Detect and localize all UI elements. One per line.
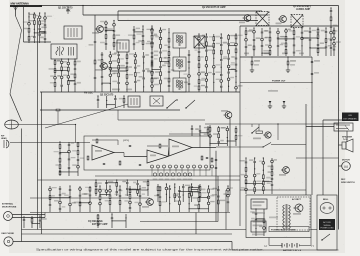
speaker jack box xyxy=(334,123,353,131)
IC1 amplifier outline box xyxy=(84,136,210,170)
coil L3 windings xyxy=(130,98,132,105)
label near Q2 smudge xyxy=(239,22,245,24)
jack external microphone xyxy=(4,212,13,221)
svg-text:BELL: BELL xyxy=(323,199,329,201)
wire pots drop x278 xyxy=(277,124,279,140)
svg-text:REC: REC xyxy=(341,179,346,181)
wire left bus x37.5 xyxy=(37,18,39,230)
IF transformer IFT1 coil box xyxy=(173,33,186,48)
label near Q7 smudge xyxy=(142,206,149,208)
label near Q6 smudge xyxy=(221,110,228,112)
label near Q5 smudge xyxy=(279,174,286,176)
wire mic lead a xyxy=(13,214,46,216)
transformer T1 ant coil box xyxy=(51,44,77,59)
junction powerout x312 xyxy=(311,82,312,83)
wire left bus x41.5 xyxy=(41,92,43,234)
wire osc row y120 xyxy=(118,119,205,121)
wire battery lead right xyxy=(310,238,312,246)
transistor Q6 ALC xyxy=(224,112,232,119)
wire speaker link y120 xyxy=(323,119,342,121)
wire drop x83 xyxy=(82,6,84,16)
coil L2 windings xyxy=(119,43,121,50)
svg-text:50/60Hz: 50/60Hz xyxy=(323,225,330,227)
wire battery lead left xyxy=(268,238,270,246)
wire speaker feed y144.5 xyxy=(271,144,306,146)
label near Q3 smudge xyxy=(95,69,102,71)
cluster mixer RC network xyxy=(98,51,159,92)
capacitor on x312 b xyxy=(311,73,314,75)
cluster Q1 bias network xyxy=(100,20,121,50)
speaker icon xyxy=(342,139,353,152)
label PWR smudge xyxy=(172,146,179,148)
wire x232 step v xyxy=(231,242,233,251)
cluster bias oscillator RC xyxy=(239,157,277,194)
driver transformer T2 dashed xyxy=(291,15,303,28)
wire rail y26 right xyxy=(240,25,339,27)
capacitor C40 feedback xyxy=(129,145,132,147)
wire mic lead b xyxy=(13,217,46,219)
labels on y57 bus xyxy=(244,53,304,55)
ground symbol det 1 xyxy=(268,101,272,109)
label near Q4 smudge xyxy=(276,23,282,25)
switch S5 power xyxy=(322,234,330,240)
record/play head xyxy=(4,140,9,148)
IF transformer IFT4 xbox xyxy=(194,36,205,48)
wire mixer bottom join y92 xyxy=(95,91,160,93)
psu text smudge3 xyxy=(252,212,263,214)
svg-text:M: M xyxy=(344,164,347,169)
trimmer capacitor box xyxy=(150,96,163,106)
wire psu link y229.5 xyxy=(311,229,317,231)
wire q6 drop x230 xyxy=(229,119,231,196)
wire ift column link2 xyxy=(179,71,181,78)
wire pots row y124 xyxy=(205,123,339,125)
label plate AC power cord xyxy=(319,219,335,230)
transformer T1 windings xyxy=(56,46,74,56)
transistor Q4 xyxy=(278,16,286,23)
wire antenna long lead xyxy=(10,30,22,94)
psu text smudge5 xyxy=(252,234,264,236)
wire antenna lead to gang xyxy=(10,94,22,121)
wire x240 long drop xyxy=(239,26,241,226)
transistor Q3 xyxy=(99,63,107,70)
accessory box bell-AC xyxy=(317,195,337,250)
junction pots row xyxy=(277,123,278,124)
label REC smudge xyxy=(126,89,132,91)
resistor cluster right of IC1 xyxy=(201,156,213,162)
power transformer dashed box xyxy=(277,197,310,230)
cluster mixer top RC xyxy=(128,25,157,50)
resistor on x95 b xyxy=(94,60,96,64)
transistor Q8 AC rectifier xyxy=(294,204,304,212)
label ALC smudge xyxy=(150,155,156,157)
wire x312 drop xyxy=(311,57,313,195)
RF coil marks xyxy=(67,28,69,37)
wire gang lead drop x75.5 xyxy=(75,125,77,143)
cluster antenna input RC network xyxy=(23,12,52,43)
variable capacitor tuning gang xyxy=(5,120,19,129)
wire dial cord diagonal xyxy=(45,104,128,128)
wire speaker feed y158 xyxy=(296,157,339,159)
junction gang lead xyxy=(75,124,76,125)
wire frame bottom right y250 xyxy=(232,249,339,251)
oscillator coil L3 box xyxy=(128,96,140,107)
wire node ant join y42 xyxy=(24,41,52,43)
svg-text:CQ DECKING: CQ DECKING xyxy=(88,221,103,223)
wire mid-right bus y57 xyxy=(240,56,312,58)
wire return bus y234 xyxy=(22,233,233,235)
cluster audio bias upper xyxy=(245,27,341,56)
label LR bias smudge xyxy=(268,90,278,92)
wire speaker feed y147 xyxy=(216,146,262,148)
wire riser x323b xyxy=(322,237,324,250)
capacitor C42 ic1 xyxy=(139,164,142,166)
wire mic bus y198 xyxy=(30,197,150,199)
transistor Q5 bias osc xyxy=(281,167,289,174)
wire gang lead y124.5 xyxy=(18,124,75,126)
label VOL smudge xyxy=(253,138,261,140)
capacitor on x216 a xyxy=(215,159,218,161)
svg-text:POWER OUT: POWER OUT xyxy=(272,81,286,83)
cluster IF stage 1 RC xyxy=(146,27,175,92)
wire IF bottom join y92 xyxy=(160,91,240,93)
battery cells 1.5Vx4 xyxy=(269,243,311,248)
wire mixer vertical x95 xyxy=(94,15,96,92)
cluster fm osc row parts xyxy=(97,95,125,108)
wire ic1 bottom bus y176 xyxy=(95,175,240,177)
wire a2 in link xyxy=(124,156,147,158)
svg-text:EXT SKT AMP: EXT SKT AMP xyxy=(92,223,108,226)
cluster IF mid col xyxy=(183,50,190,92)
wire drop x118 xyxy=(117,11,119,21)
wire a1 feedback top xyxy=(92,139,118,141)
label x312 smudge2 xyxy=(314,72,319,74)
wire head line y142 xyxy=(10,142,90,144)
fuse label smudge2 xyxy=(253,205,262,207)
bar under MW ANTENNA xyxy=(10,5,42,7)
wire ext speaker drop xyxy=(346,131,348,142)
label x95 smudge xyxy=(89,44,94,46)
op-amp A1 eq amp xyxy=(92,145,114,160)
wire a1-a2 link v xyxy=(123,153,125,157)
label x312 smudge xyxy=(314,60,320,62)
switch S2 play/rec xyxy=(252,127,259,133)
junction x83 y5.5 xyxy=(82,5,83,6)
wire motor feed xyxy=(339,165,342,167)
wire a2 out to a3 xyxy=(168,148,169,157)
svg-text:EXTERNAL: EXTERNAL xyxy=(2,203,14,206)
wire tuner bottom join y92 xyxy=(40,91,95,93)
capacitor on rail x68 xyxy=(67,9,70,11)
svg-text:POWER CORD: POWER CORD xyxy=(320,228,334,230)
wire mic bus y212.5 xyxy=(30,212,230,214)
op-amp A2 ALC amp xyxy=(147,150,168,163)
label near Q1 smudge xyxy=(92,32,99,34)
wire a3 feedback drop xyxy=(199,134,201,148)
label plate JKB EXT SPEAKER xyxy=(342,113,359,122)
transistor Q1 xyxy=(95,26,103,33)
antenna MW rod xyxy=(14,7,22,30)
wire return bus y229.5 xyxy=(22,229,247,231)
wire x306 drop xyxy=(305,104,307,195)
wire a2 feedback xyxy=(147,145,168,147)
resistor group R34 hanging xyxy=(286,56,296,72)
label PB smudge xyxy=(112,89,120,91)
psu text smudge4 xyxy=(269,217,278,219)
transistor Q9 motor gov xyxy=(263,132,271,138)
transistor Q7 mic amp xyxy=(145,199,153,206)
resistor R on osc line xyxy=(56,109,60,111)
svg-text:MICROPHONE: MICROPHONE xyxy=(2,206,17,208)
cluster ext skt parts xyxy=(97,213,126,228)
wire osc drop x118b xyxy=(117,110,119,120)
cluster output electrolytics xyxy=(157,183,207,202)
wire rail y15 xyxy=(83,14,268,16)
resistor R43 ic1 xyxy=(119,161,121,165)
wire gang bus x22 xyxy=(21,129,23,242)
speaker jack contacts xyxy=(336,124,350,126)
wire ift column link xyxy=(179,48,181,57)
cluster above IC1 parts xyxy=(191,125,209,136)
wire ic1 feedback loop top xyxy=(117,140,119,145)
cluster head eq network xyxy=(54,141,85,176)
wire rail y11 xyxy=(118,10,262,12)
wire riser x218 xyxy=(217,176,219,222)
svg-text:POWER TRANSFORMER: POWER TRANSFORMER xyxy=(271,228,296,231)
svg-text:Specification or wiring diagra: Specification or wiring diagrams of this… xyxy=(36,248,265,252)
wire power out line y82 xyxy=(240,82,312,84)
switch S1b band xyxy=(186,100,195,108)
wire mic riser x45 xyxy=(44,213,46,218)
resistor R41 ic1 in xyxy=(87,156,89,160)
wire rail y20.5 xyxy=(118,20,258,22)
svg-text:AC 120V: AC 120V xyxy=(323,221,331,224)
psu switch block box xyxy=(251,221,266,232)
wire right frame x338.5 xyxy=(338,6,340,230)
wire a3 out xyxy=(192,147,216,149)
IF transformer IFT2 coil box xyxy=(173,57,186,71)
svg-text:AUDIO AMP: AUDIO AMP xyxy=(296,8,311,11)
cluster tone network xyxy=(204,125,243,146)
switch label smudge2 xyxy=(253,225,263,227)
fuse label smudge xyxy=(253,201,265,203)
volume pot VR1 xyxy=(256,131,263,133)
cluster psu filter xyxy=(250,208,265,236)
cluster eq network lower xyxy=(95,179,149,196)
resistor R44 ic1 xyxy=(96,139,98,143)
label EQ AMP smudge xyxy=(95,150,102,152)
cluster tuner secondary RC xyxy=(49,58,81,92)
switch label smudge xyxy=(253,221,265,223)
wire return bus y221.5 xyxy=(140,221,218,223)
op-amp A3 power amp xyxy=(169,139,192,156)
power transformer windings xyxy=(283,205,285,208)
cluster frame stub caps xyxy=(330,7,338,56)
cluster mic amp RC 2 xyxy=(154,185,233,212)
svg-text:AC RECT: AC RECT xyxy=(292,198,302,201)
ground symbol det 2 xyxy=(282,101,286,109)
cluster mic amp RC 1 xyxy=(49,185,146,212)
svg-text:HEAD: HEAD xyxy=(1,137,7,140)
cluster mic input parts xyxy=(23,215,47,228)
label near Q8 smudge xyxy=(293,213,301,215)
capacitor C41 ic1 xyxy=(103,163,106,165)
svg-text:MOTOR: MOTOR xyxy=(342,159,350,161)
wire right stub y145 xyxy=(339,144,343,146)
wire a3 feedback top xyxy=(169,133,200,135)
wire osc row y110 xyxy=(40,109,180,111)
svg-text:SIDE SWITCH: SIDE SWITCH xyxy=(341,182,355,184)
AC outlet symbol xyxy=(320,203,334,214)
capacitor on x216 b xyxy=(215,167,218,169)
wire frame bottom y241.5 xyxy=(13,241,232,243)
wire bias join y190 xyxy=(240,189,306,191)
svg-text:( IC1 ): ( IC1 ) xyxy=(123,140,129,142)
trimmer cross marks xyxy=(153,98,160,104)
wire mid bus y180 xyxy=(38,179,241,181)
oscillator coil L2 box xyxy=(117,40,129,52)
capacitor on x95 c xyxy=(94,77,97,79)
wire a1 out link xyxy=(114,152,124,154)
switch S3 speaker xyxy=(263,143,271,148)
resistor group R33 hanging xyxy=(250,56,260,72)
wire antenna coupling down x23.5 xyxy=(23,7,25,42)
jack ear phone xyxy=(4,237,13,246)
resistor R40 feedback xyxy=(159,144,161,148)
transistor Q2 xyxy=(243,15,251,22)
IC1 pin circles row xyxy=(151,165,214,176)
motor M circle xyxy=(342,162,351,171)
wire x196 drop xyxy=(195,213,197,235)
wire riser x226b xyxy=(225,190,227,230)
wire speaker link y126 xyxy=(306,126,334,128)
electrolytic capacitors row under IC1 pins xyxy=(153,173,193,180)
svg-text:EXT SPEAKER: EXT SPEAKER xyxy=(343,118,357,121)
cluster IF stage 2 RC xyxy=(193,33,243,92)
IF transformer IFT3 coil box xyxy=(173,78,186,92)
capacitor on x312 a xyxy=(311,61,314,63)
svg-text:MW ANTENNA: MW ANTENNA xyxy=(11,2,29,6)
RF coil can xyxy=(64,26,82,39)
power transformer label box xyxy=(269,227,309,232)
svg-text:EAR PHONE: EAR PHONE xyxy=(2,232,15,235)
IF transformer IFT4 dashed xyxy=(256,12,269,26)
power supply outer box xyxy=(246,195,311,238)
svg-text:Q2 2SC1675 IF AMP: Q2 2SC1675 IF AMP xyxy=(202,6,226,9)
wire osc stub drop xyxy=(57,110,59,124)
wire x323 drop xyxy=(322,120,324,195)
wire cap stub x68 xyxy=(67,6,69,14)
switch S1 band xyxy=(167,100,176,108)
wire rail B+ top y5.5 xyxy=(39,5,339,7)
capacitor on x95 a xyxy=(94,41,97,43)
svg-text:FM OSC: FM OSC xyxy=(84,93,93,95)
fuse block box xyxy=(251,199,267,209)
wire x216 drop xyxy=(215,151,217,222)
